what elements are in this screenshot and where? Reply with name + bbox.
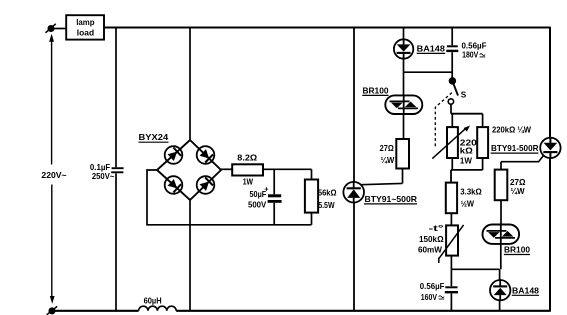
svg-text:BYX24: BYX24 xyxy=(139,133,169,142)
svg-text:5.5W: 5.5W xyxy=(318,201,335,210)
svg-text:BA148: BA148 xyxy=(417,44,446,53)
capacitor 0.1uF 250V~ xyxy=(90,28,124,311)
terminal: mains input top xyxy=(46,24,56,33)
svg-text:3.3kΩ: 3.3kΩ xyxy=(460,188,482,197)
wire: left thyristor rail xyxy=(353,28,355,311)
resistor 27ohm 1/4W (right) xyxy=(495,162,526,225)
thermistor 150k 60mW xyxy=(418,224,464,269)
lamp load box xyxy=(66,15,104,39)
capacitor 0.56uF 180V (top) xyxy=(446,28,486,80)
svg-text:50µF: 50µF xyxy=(250,190,267,199)
svg-text:0.56µF: 0.56µF xyxy=(462,41,487,50)
wire: diode to diac branch xyxy=(403,59,405,96)
svg-text:60mW: 60mW xyxy=(418,246,442,255)
svg-text:250V~: 250V~ xyxy=(92,172,115,181)
wire: right rail xyxy=(549,28,551,312)
potentiometer 220k 1W xyxy=(432,114,477,170)
svg-text:BA148: BA148 xyxy=(512,286,539,295)
svg-text:0.1µF: 0.1µF xyxy=(90,163,110,172)
label BTY91-500R (right) xyxy=(491,144,539,153)
terminal: mains input bottom xyxy=(47,306,58,315)
svg-text:220kΩ ¼W: 220kΩ ¼W xyxy=(492,125,531,134)
source indicator arrow 220V~ xyxy=(41,34,66,304)
svg-text:8.2Ω: 8.2Ω xyxy=(237,153,257,162)
svg-text:160V: 160V xyxy=(421,293,438,302)
wire: junction thermistor bottom to diac branch xyxy=(451,268,499,270)
wire: terminal to lamp load xyxy=(54,28,67,30)
wire: top rail xyxy=(104,27,551,29)
wire: bridge right vertex to R 8.2 xyxy=(221,168,233,170)
label BA148 (bottom) xyxy=(512,286,540,295)
svg-text:150kΩ: 150kΩ xyxy=(419,235,444,244)
svg-text:1W: 1W xyxy=(243,177,254,186)
diode BA148 (bottom) xyxy=(490,269,510,311)
wire: top rail to bridge top vertex xyxy=(189,28,191,141)
svg-text:27Ω: 27Ω xyxy=(380,144,395,153)
label BA148 (top) xyxy=(417,44,446,53)
svg-text:180V: 180V xyxy=(462,51,479,60)
svg-text:¼W: ¼W xyxy=(511,187,525,196)
svg-text:¼W: ¼W xyxy=(381,156,395,165)
wire: diac to resistor 27 xyxy=(403,114,405,139)
capacitor 0.56uF 160V (bottom) xyxy=(420,269,458,311)
svg-text:56kΩ: 56kΩ xyxy=(318,188,337,197)
wire: bridge bottom vertex to bottom rail xyxy=(189,200,191,311)
inductor 60uH xyxy=(139,296,177,311)
wire: bridge left vertex to DC minus rail xyxy=(147,170,312,225)
svg-text:1W: 1W xyxy=(460,156,472,165)
svg-text:BR100: BR100 xyxy=(363,87,389,96)
svg-text:60µH: 60µH xyxy=(144,296,162,305)
svg-text:½W: ½W xyxy=(461,200,475,209)
wire: bottom rail (left of coil) xyxy=(52,310,139,312)
svg-text:-t°: -t° xyxy=(429,224,444,233)
thyristor BTY91-500R (right) xyxy=(501,138,561,162)
resistor 27ohm 1/4W (left) xyxy=(380,139,409,183)
diac BR100 (top) xyxy=(385,95,422,114)
diac BR100 (bottom) xyxy=(483,225,520,270)
label BR100 (top) xyxy=(362,87,389,96)
svg-text:BTY91~500R: BTY91~500R xyxy=(365,195,418,204)
diode BA148 (top) xyxy=(394,39,413,58)
thyristor BTY91-500R (left) xyxy=(343,182,402,203)
wire: top rail to diode BA148 xyxy=(403,28,405,41)
resistor 3.3k 1/2W xyxy=(446,183,482,226)
wire: R 8.2 to 56k top xyxy=(263,168,312,170)
label BTY91~500R (left) xyxy=(364,195,417,204)
bridge rectifier BYX24 xyxy=(157,140,221,200)
resistor 220k 1/4W xyxy=(477,114,531,170)
wire: RC bottom join xyxy=(451,170,483,183)
svg-text:lamp: lamp xyxy=(76,18,94,27)
resistor 8.2ohm 1W xyxy=(232,153,263,186)
svg-text:S: S xyxy=(461,90,467,99)
wire: parallel link to capacitor branch xyxy=(404,71,453,73)
wire: bottom rail (right of coil) xyxy=(176,310,551,312)
svg-text:220V~: 220V~ xyxy=(41,171,66,180)
svg-text:500V: 500V xyxy=(248,201,267,210)
resistor 56k 5.5W xyxy=(305,169,337,225)
svg-text:27Ω: 27Ω xyxy=(510,178,526,187)
mechanical link switch-potentiometer (dashed) xyxy=(435,93,452,149)
svg-text:load: load xyxy=(77,28,94,37)
label BYX24 xyxy=(139,133,169,142)
svg-text:0.56µF: 0.56µF xyxy=(420,282,445,291)
svg-text:BTY91-500R: BTY91-500R xyxy=(491,144,539,153)
wire: switch node to RC top xyxy=(451,113,483,115)
svg-text:BR100: BR100 xyxy=(504,246,530,255)
switch S xyxy=(448,78,467,114)
label BR100 (bottom) xyxy=(504,246,531,255)
capacitor 50uF 500V xyxy=(248,169,282,225)
svg-text:kΩ: kΩ xyxy=(460,147,474,156)
